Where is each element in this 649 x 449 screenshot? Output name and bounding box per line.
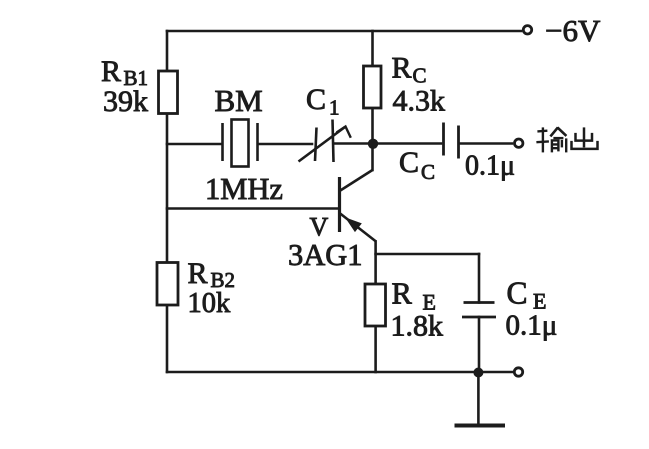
wire bottom rail xyxy=(167,371,512,374)
terminal -6V xyxy=(523,26,531,34)
svg-text:1MHz: 1MHz xyxy=(205,172,283,206)
wire emitter to RE xyxy=(374,242,377,285)
svg-text:R: R xyxy=(392,52,412,85)
node collector junction xyxy=(368,139,378,149)
wire left bus to crystal xyxy=(167,143,222,146)
svg-text:4.3k: 4.3k xyxy=(393,85,446,118)
svg-text:1: 1 xyxy=(329,96,340,120)
wire emitter rail xyxy=(376,253,479,256)
transistor V (PNP 3AG1) xyxy=(340,170,377,242)
svg-text:R: R xyxy=(392,277,413,311)
wire node to CC xyxy=(373,142,442,145)
wire CE bottom lead xyxy=(478,317,481,373)
crystal BM xyxy=(223,120,258,167)
svg-text:39k: 39k xyxy=(103,85,148,118)
wire base lead xyxy=(167,207,339,210)
label CE xyxy=(507,276,547,314)
resistor RC xyxy=(364,66,382,108)
wire collector vertical lead xyxy=(371,144,374,171)
terminal output xyxy=(515,139,523,147)
svg-text:0.1μ: 0.1μ xyxy=(506,310,558,342)
wire RC top lead xyxy=(371,31,374,66)
terminal bottom xyxy=(514,368,522,376)
svg-text:BM: BM xyxy=(215,83,263,118)
capacitor C1 (variable) xyxy=(299,120,351,163)
svg-text:R: R xyxy=(188,257,208,290)
svg-text:3AG1: 3AG1 xyxy=(288,238,363,272)
svg-text:R: R xyxy=(101,55,121,88)
node emitter-ground junction xyxy=(473,368,483,378)
svg-text:C: C xyxy=(421,160,435,184)
svg-text:−6V: −6V xyxy=(545,13,601,48)
wire RC bottom lead to node xyxy=(371,108,374,144)
svg-text:C: C xyxy=(306,83,326,116)
svg-text:1.8k: 1.8k xyxy=(391,310,444,343)
capacitor CC xyxy=(444,123,459,159)
resistor RB2 xyxy=(157,263,178,306)
wire left vertical bus xyxy=(166,31,169,372)
label RE xyxy=(392,277,436,315)
resistor RB1 xyxy=(159,71,178,114)
label CC xyxy=(399,146,435,184)
svg-text:0.1μ: 0.1μ xyxy=(465,151,515,182)
svg-text:10k: 10k xyxy=(188,288,232,319)
label RB2 xyxy=(188,257,236,292)
resistor RE xyxy=(365,284,386,326)
wire CC to output terminal xyxy=(460,142,513,145)
label output (Chinese) xyxy=(536,127,566,152)
wire crystal to C1 xyxy=(258,143,312,146)
svg-text:C: C xyxy=(399,146,419,179)
label C1 xyxy=(306,83,340,120)
capacitor CE xyxy=(462,303,496,318)
wire CE top lead xyxy=(478,254,481,303)
wire C1 to node xyxy=(335,142,373,145)
wire ground stem xyxy=(477,373,480,425)
wire top supply rail xyxy=(167,30,521,33)
ground xyxy=(455,424,506,428)
transistor emitter arrow xyxy=(347,219,361,231)
label RB1 xyxy=(101,55,148,90)
svg-text:C: C xyxy=(507,276,528,311)
wire RE bottom lead xyxy=(374,326,377,372)
label RC xyxy=(392,52,427,88)
